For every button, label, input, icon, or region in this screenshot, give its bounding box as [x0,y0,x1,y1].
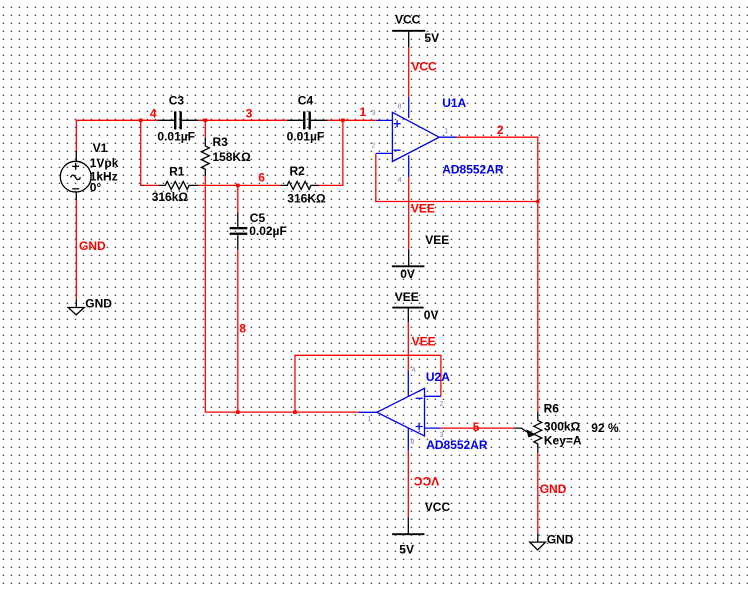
svg-text:316KΩ: 316KΩ [287,191,326,205]
svg-text:VCC: VCC [411,59,437,73]
svg-text:4: 4 [412,367,416,374]
svg-text:0V: 0V [424,308,439,322]
svg-text:2: 2 [440,401,444,408]
svg-text:316kΩ: 316kΩ [152,190,189,204]
svg-text:300kΩ: 300kΩ [544,420,581,434]
svg-text:VCC: VCC [425,500,451,514]
svg-text:R6: R6 [544,401,560,415]
svg-text:VEE: VEE [411,201,435,215]
svg-text:4: 4 [398,177,402,184]
svg-text:C5: C5 [250,211,266,225]
svg-text:1: 1 [360,105,367,119]
svg-text:4: 4 [150,107,157,121]
svg-text:R1: R1 [169,165,185,179]
svg-text:R3: R3 [213,135,229,149]
svg-text:0.01µF: 0.01µF [287,129,325,143]
svg-text:1Vpk: 1Vpk [90,156,119,170]
svg-text:GND: GND [540,482,567,496]
svg-text:VEE: VEE [425,233,449,247]
svg-text:5V: 5V [424,31,439,45]
svg-text:0.01µF: 0.01µF [157,129,195,143]
svg-text:92 %: 92 % [591,421,619,435]
svg-text:0°: 0° [90,180,102,194]
svg-text:2: 2 [497,123,504,137]
svg-text:R2: R2 [290,164,306,178]
svg-text:VCC: VCC [395,13,421,27]
svg-text:3: 3 [246,107,253,121]
svg-text:6: 6 [258,171,265,185]
svg-text:3: 3 [440,432,444,439]
svg-text:2: 2 [372,143,376,150]
svg-text:C4: C4 [298,93,314,107]
svg-text:0.02µF: 0.02µF [249,224,287,238]
svg-text:C3: C3 [169,93,185,107]
svg-text:5V: 5V [399,543,414,557]
svg-text:GND: GND [547,532,574,546]
svg-text:VEE: VEE [395,290,419,304]
svg-text:8: 8 [239,321,246,335]
svg-text:8: 8 [411,439,415,446]
svg-text:U2A: U2A [426,370,450,384]
svg-text:1: 1 [444,128,448,135]
svg-text:VCC: VCC [414,474,440,488]
svg-text:1: 1 [367,416,371,423]
svg-text:5: 5 [473,420,480,434]
svg-text:0V: 0V [400,267,415,281]
svg-text:8: 8 [398,103,402,110]
svg-text:Key=A: Key=A [544,434,582,448]
svg-text:GND: GND [85,297,112,311]
svg-text:158KΩ: 158KΩ [212,150,251,164]
svg-text:AD8552AR: AD8552AR [442,162,504,176]
svg-text:AD8552AR: AD8552AR [426,438,488,452]
svg-text:V1: V1 [93,141,108,155]
svg-text:VEE: VEE [412,335,436,349]
svg-text:3: 3 [372,110,376,117]
svg-text:U1A: U1A [442,96,466,110]
svg-text:GND: GND [79,239,106,253]
